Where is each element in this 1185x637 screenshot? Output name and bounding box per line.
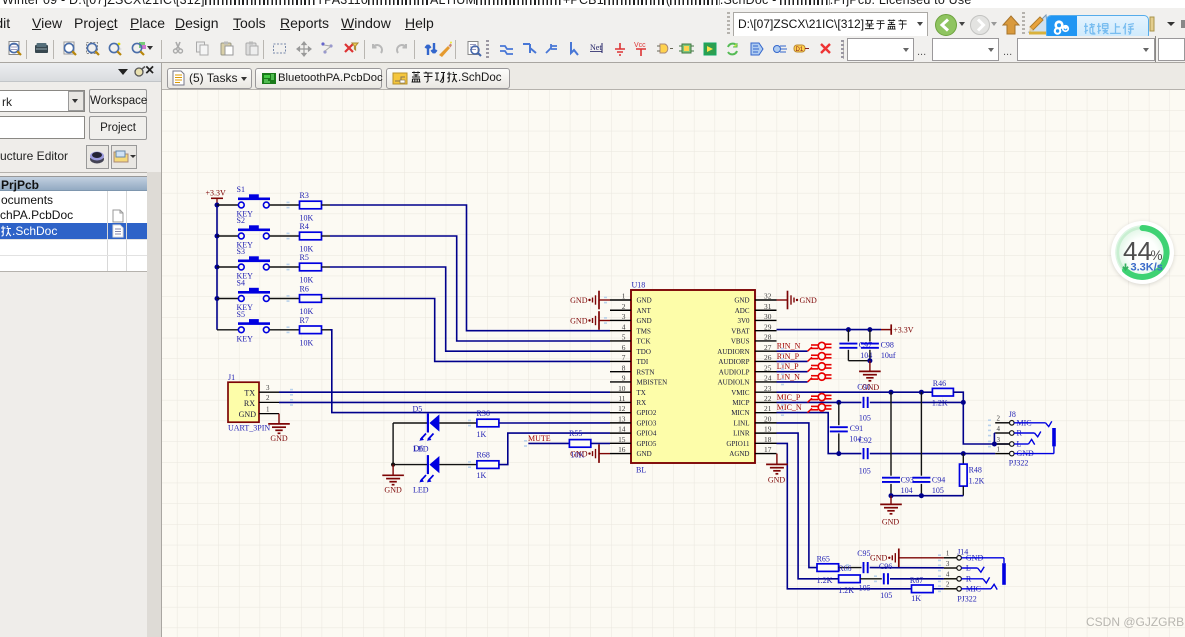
wire rail to switch S2 — [217, 235, 238, 237]
junction C94 top — [919, 390, 924, 395]
wire R7 to U18 GPIO2 — [330, 330, 610, 413]
junction C97 tap — [846, 327, 851, 332]
svg-text:R7: R7 — [300, 316, 309, 325]
svg-text:105: 105 — [880, 591, 892, 600]
junction C93 top — [889, 390, 894, 395]
svg-text:MICN: MICN — [731, 409, 749, 417]
svg-text:PJ322: PJ322 — [957, 595, 977, 604]
wire +3.3V vertical rail — [216, 205, 218, 330]
svg-text:GND: GND — [239, 410, 257, 419]
svg-text:R48: R48 — [969, 465, 982, 474]
ground C93 C94 R48 — [890, 496, 892, 504]
switch S1 KEY — [249, 194, 259, 197]
svg-text:AGND: AGND — [729, 450, 749, 458]
baidu upload widget — [1046, 15, 1149, 40]
wire J1 RX to U18 pin11 — [279, 401, 610, 403]
junction MICP-C91 — [836, 400, 841, 405]
junction C91 bottom — [836, 451, 841, 456]
svg-text:16: 16 — [618, 445, 626, 454]
toolbar — [0, 36, 1185, 63]
svg-text:LED: LED — [413, 486, 429, 495]
title bar (clipped) — [0, 0, 1185, 8]
U18 pin 28 MICN — [755, 340, 777, 342]
wire D6 to R68 — [439, 464, 477, 466]
junction node +3.3V row 3 — [215, 265, 220, 270]
wire switch to resistor R7 — [269, 329, 299, 331]
svg-text:LIN_N: LIN_N — [777, 372, 800, 381]
wire MUTE stub — [528, 442, 569, 444]
svg-text:TDO: TDO — [637, 348, 651, 356]
svg-text:KEY: KEY — [237, 334, 254, 343]
U18 pin 19 3V0 — [755, 432, 777, 434]
switch S5 KEY — [249, 319, 259, 322]
svg-text:15: 15 — [618, 435, 626, 444]
svg-text:7: 7 — [622, 353, 626, 362]
svg-text:10uf: 10uf — [881, 351, 896, 360]
project tree — [0, 176, 147, 271]
svg-text:AUDIOLP: AUDIOLP — [719, 368, 750, 376]
U18 pin 1 GND — [610, 299, 631, 301]
U18 pin 9 MBISTEN — [610, 381, 631, 383]
svg-text:R66: R66 — [838, 564, 851, 573]
svg-text:GND: GND — [637, 450, 652, 458]
svg-text:C96: C96 — [879, 562, 892, 571]
svg-text:GND: GND — [800, 296, 818, 305]
svg-text:19: 19 — [764, 425, 772, 434]
svg-text:GPIO11: GPIO11 — [726, 440, 750, 448]
capacitor C93 104 — [890, 392, 892, 476]
address combo — [727, 12, 730, 34]
J8 pin 3 L — [995, 443, 1009, 445]
wire J1 TX to U18 pin10 — [279, 391, 610, 393]
forward button (disabled) — [969, 14, 991, 36]
svg-text:9: 9 — [622, 374, 626, 383]
wire R46 to headphone feed — [953, 392, 1010, 444]
svg-text:C91: C91 — [850, 424, 863, 433]
U18 pin 30 LINR — [755, 319, 777, 321]
capacitor C96 105 (series) — [860, 578, 882, 580]
resistor R55 10K — [569, 440, 590, 448]
wire U18 GPIO11 to R67 — [777, 443, 912, 588]
J14 pin 2 MIC — [944, 588, 957, 590]
svg-text:S2: S2 — [237, 216, 245, 225]
svg-text:2: 2 — [622, 302, 626, 311]
svg-text:10K: 10K — [300, 338, 314, 347]
resistor R36 1K — [477, 419, 499, 427]
U18 pin 24 AUDIOLP — [755, 381, 777, 383]
resistor R5 10K — [300, 263, 322, 271]
svg-text:18: 18 — [764, 435, 772, 444]
svg-text:R68: R68 — [477, 451, 490, 460]
svg-text:PJ322: PJ322 — [1009, 458, 1029, 467]
svg-text:3V0: 3V0 — [737, 317, 750, 325]
svg-text:RX: RX — [244, 399, 255, 408]
U18 pin 12 GPIO2 — [610, 412, 631, 414]
wire C93 C94 R48 bottom rail — [891, 495, 963, 497]
J14 pin 4 R — [944, 578, 957, 580]
ground U18 AGND pin17 — [776, 454, 778, 464]
svg-text:MIC_N: MIC_N — [777, 403, 802, 412]
svg-text:23: 23 — [764, 384, 772, 393]
U18 pin 6 TDO — [610, 350, 631, 352]
J8 sleeve barrel — [1014, 453, 1054, 455]
svg-text:11: 11 — [618, 394, 625, 403]
svg-text:U18: U18 — [632, 280, 646, 289]
U18 pin 25 AUDIOLN — [755, 371, 777, 373]
svg-text:105: 105 — [859, 413, 871, 422]
ground C97 C98 — [869, 361, 871, 371]
capacitor C92 105 (series) — [863, 448, 865, 459]
toolbar combos — [847, 38, 914, 61]
U18 pin 15 GPIO5 — [610, 442, 631, 444]
connector J1 UART_3PIN — [228, 382, 259, 422]
switch S2 KEY — [249, 225, 259, 228]
wire switch to resistor R4 — [269, 235, 299, 237]
svg-text:GND: GND — [768, 475, 786, 484]
U18 pin 14 GPIO4 — [610, 432, 631, 434]
svg-text:ANT: ANT — [637, 307, 652, 315]
wire D5 to R36 — [439, 422, 477, 424]
resistor R6 10K — [300, 295, 322, 303]
svg-text:3: 3 — [997, 436, 1001, 444]
svg-text:20: 20 — [764, 414, 772, 423]
svg-text:32: 32 — [764, 292, 772, 301]
svg-text:14: 14 — [618, 425, 626, 434]
CSDN watermark — [1086, 615, 1184, 629]
wire U18 VBAT to +3.3V — [777, 329, 882, 331]
U18 pin 32 AGND — [755, 299, 777, 301]
U18 pin 31 GPIO11 — [755, 309, 777, 311]
svg-text:29: 29 — [764, 322, 772, 331]
svg-text:GND: GND — [270, 434, 288, 443]
svg-text:TX: TX — [244, 389, 255, 398]
svg-text:MIC_P: MIC_P — [777, 393, 801, 402]
svg-text:C95: C95 — [857, 549, 870, 558]
tab bar — [162, 63, 1185, 90]
junction bottom rail C94 — [919, 493, 924, 498]
junction node +3.3V row 4 — [215, 296, 220, 301]
svg-text:+3.3V: +3.3V — [206, 189, 227, 198]
svg-text:12: 12 — [618, 404, 626, 413]
capacitor C90 105 (series on MICP) — [863, 397, 865, 408]
svg-text:S4: S4 — [237, 279, 245, 288]
up arrow — [1000, 13, 1022, 36]
wire C92 to jack J8 ground row — [870, 453, 995, 455]
svg-text:1: 1 — [997, 445, 1001, 453]
svg-text:1: 1 — [266, 405, 270, 413]
svg-text:MUTE: MUTE — [528, 434, 551, 443]
workspace row — [0, 90, 85, 112]
wire rail to switch S3 — [217, 266, 238, 268]
svg-text:R67: R67 — [910, 576, 923, 585]
capacitor C94 105 — [920, 392, 922, 476]
svg-text:3: 3 — [946, 560, 950, 568]
svg-text:22: 22 — [764, 394, 772, 403]
svg-text:TCK: TCK — [637, 338, 651, 346]
menu bar — [0, 8, 1185, 36]
svg-text:R36: R36 — [477, 409, 490, 418]
svg-text:21: 21 — [764, 404, 772, 413]
junction LED ground node — [391, 463, 395, 467]
svg-text:GND: GND — [570, 296, 588, 305]
J8 pin 4 R — [995, 432, 1009, 434]
wire switch to resistor R6 — [269, 298, 299, 300]
svg-text:D1: D1 — [796, 47, 804, 53]
J14 pin 3 L — [944, 567, 957, 569]
capacitor C95 105 (series) — [839, 567, 862, 569]
svg-text:VBAT: VBAT — [731, 327, 750, 335]
svg-text:C93: C93 — [901, 475, 914, 484]
U18 pin 13 GPIO3 — [610, 422, 631, 424]
junction node +3.3V row 2 — [215, 234, 220, 239]
svg-text:GPIO4: GPIO4 — [637, 430, 657, 438]
U18 pin 16 GND — [610, 453, 631, 455]
power port +3.3V (VBAT) — [881, 329, 891, 331]
switch S4 KEY — [249, 288, 259, 291]
power ground at U18 pin32 — [777, 299, 788, 301]
svg-text:MBISTEN: MBISTEN — [637, 379, 668, 387]
svg-text:GND: GND — [570, 317, 588, 326]
junction bottom rail C93 — [889, 493, 894, 498]
svg-text:S1: S1 — [237, 185, 245, 194]
resistor R65 1.2K — [817, 564, 839, 572]
J1 pin 2 — [259, 401, 279, 403]
svg-text:GND: GND — [637, 297, 652, 305]
svg-text:104: 104 — [901, 486, 913, 495]
svg-text:27: 27 — [764, 343, 772, 352]
svg-text:R55: R55 — [569, 429, 582, 438]
svg-text:+3.3V: +3.3V — [893, 325, 914, 334]
U18 pin 5 TCK — [610, 340, 631, 342]
J1 pin 1 — [259, 413, 279, 415]
svg-text:1.2K: 1.2K — [969, 476, 985, 485]
J8 pin 1 GND — [995, 453, 1009, 455]
svg-text:1K: 1K — [477, 430, 487, 439]
wire C96 to J14 R — [890, 578, 944, 580]
wire U18 LINL to R65 — [777, 423, 818, 568]
svg-text:4: 4 — [946, 571, 950, 579]
svg-text:5: 5 — [622, 333, 626, 342]
svg-text:6: 6 — [622, 343, 626, 352]
J14 jack contacts — [961, 557, 1004, 559]
svg-text:3.3K/s: 3.3K/s — [1131, 262, 1163, 274]
diode D6 LED — [427, 455, 429, 474]
U18 pin 23 AUDIORP — [755, 391, 777, 393]
resistor R48 1.2K vertical — [962, 454, 964, 465]
U18 pin 17 GND — [755, 453, 777, 455]
wire R67 to J14 MIC — [933, 588, 944, 590]
download progress widget — [1111, 221, 1174, 284]
svg-text:GND: GND — [882, 517, 900, 526]
U18 pin 29 LINL — [755, 330, 777, 332]
svg-text:GND: GND — [734, 297, 749, 305]
left panel — [0, 63, 162, 637]
svg-text:24: 24 — [764, 374, 772, 383]
wire LED cathodes to ground — [393, 422, 428, 424]
U18 pin 4 TMS — [610, 330, 631, 332]
svg-text:26: 26 — [764, 353, 772, 362]
svg-text:TDI: TDI — [637, 358, 649, 366]
panel header icons — [118, 69, 128, 75]
svg-text:LINL: LINL — [734, 419, 750, 427]
J14 sleeve barrel — [1002, 563, 1006, 585]
wire endpoint markers — [287, 202, 290, 204]
ruler+pencil icon — [1027, 13, 1049, 35]
diode D5 LED — [427, 414, 429, 433]
U18 pin 7 TDI — [610, 360, 631, 362]
svg-text:10K: 10K — [300, 276, 314, 285]
wire U18 MICN to lower rail — [777, 413, 862, 454]
svg-text:2: 2 — [997, 415, 1001, 423]
U18 pin 26 VMIC — [755, 360, 777, 362]
capacitor C97 104 — [847, 330, 849, 342]
svg-text:4: 4 — [622, 322, 626, 331]
svg-text:AUDIOLN: AUDIOLN — [718, 379, 750, 387]
wire rail to switch S5 — [217, 329, 238, 331]
svg-text:1: 1 — [622, 292, 626, 301]
switch S3 KEY — [249, 256, 259, 259]
back button — [934, 13, 958, 37]
svg-text:RIN_P: RIN_P — [777, 352, 800, 361]
svg-text:R46: R46 — [933, 379, 946, 388]
wire switch to resistor R5 — [269, 266, 299, 268]
U18 pin 27 MICP — [755, 350, 777, 352]
svg-text:2: 2 — [266, 394, 270, 402]
svg-text:2: 2 — [946, 581, 950, 589]
svg-text:VMIC: VMIC — [731, 389, 750, 397]
wire rail to switch S1 — [217, 204, 238, 206]
junction J8 L node — [992, 442, 997, 447]
wire R4 to U18 — [330, 236, 610, 341]
svg-text:GPIO5: GPIO5 — [637, 440, 657, 448]
U18 pin 20 VBAT — [755, 422, 777, 424]
svg-text:RSTN: RSTN — [637, 368, 655, 376]
svg-text:VBUS: VBUS — [731, 338, 750, 346]
svg-text:S3: S3 — [237, 247, 245, 256]
svg-text:LIN_P: LIN_P — [777, 362, 799, 371]
svg-text:R5: R5 — [300, 253, 309, 262]
J14 pin 1 GND — [944, 557, 957, 559]
wire C90 to R46 node — [870, 401, 964, 403]
svg-text:D5: D5 — [413, 404, 423, 413]
svg-text:AUDIORN: AUDIORN — [717, 348, 749, 356]
resistor R7 10K — [300, 326, 322, 334]
svg-text:28: 28 — [764, 333, 772, 342]
capacitor C91 104 — [838, 402, 840, 425]
junction C97/C98 ground node — [867, 358, 872, 363]
svg-text:3: 3 — [622, 312, 626, 321]
svg-text:ADC: ADC — [735, 307, 750, 315]
svg-text:C92: C92 — [859, 436, 872, 445]
svg-text:13: 13 — [618, 414, 626, 423]
U18 pin 2 ANT — [610, 309, 631, 311]
wire U18 VMIC rail — [777, 391, 933, 393]
svg-text:GND: GND — [870, 554, 888, 563]
svg-text:AUDIORP: AUDIORP — [718, 358, 749, 366]
svg-text:LINR: LINR — [733, 430, 750, 438]
svg-text:8: 8 — [622, 363, 626, 372]
svg-text:10K: 10K — [300, 307, 314, 316]
ground J1 — [278, 414, 280, 424]
svg-text:R6: R6 — [300, 285, 309, 294]
svg-text:RX: RX — [637, 399, 647, 407]
svg-text:GND: GND — [637, 317, 652, 325]
U18 pin 22 AUDIORN — [755, 401, 777, 403]
junction C98 tap — [867, 327, 872, 332]
wire R55 to U18 GPIO5 pin15 — [591, 442, 610, 444]
svg-text:1: 1 — [946, 550, 950, 558]
wire C95 to J14 L — [870, 567, 944, 569]
J1 pin 3 — [259, 391, 279, 393]
U18 pin 18 ADC — [755, 442, 777, 444]
svg-text:TMS: TMS — [637, 327, 652, 335]
wire R68 to U18 GPIO4 pin14 — [499, 433, 610, 465]
resistor R66 1.2K — [839, 575, 861, 583]
wire R36 to U18 GPIO3 pin13 — [499, 422, 610, 424]
svg-text:17: 17 — [764, 445, 772, 454]
svg-text:RIN_N: RIN_N — [777, 342, 801, 351]
U18 pin 21 VBUS — [755, 412, 777, 414]
svg-text:R4: R4 — [300, 222, 309, 231]
wire R6 to U18 — [330, 299, 610, 362]
wire R3 to U18 — [330, 205, 610, 331]
svg-text:10: 10 — [618, 384, 626, 393]
svg-text:GPIO2: GPIO2 — [637, 409, 657, 417]
resistor R46 1.2K — [932, 388, 953, 396]
svg-text:J8: J8 — [1009, 410, 1016, 419]
resistor R3 10K — [300, 201, 322, 209]
svg-text:30: 30 — [764, 312, 772, 321]
svg-text:GND: GND — [384, 486, 402, 495]
U18 pin 8 RSTN — [610, 371, 631, 373]
svg-text:1K: 1K — [911, 594, 921, 603]
svg-text:C94: C94 — [932, 475, 945, 484]
wire switch to resistor R3 — [269, 204, 299, 206]
svg-text:TX: TX — [637, 389, 646, 397]
U18 pin 10 TX — [610, 391, 631, 393]
svg-text:R65: R65 — [817, 554, 830, 563]
U18 pin 11 RX — [610, 401, 631, 403]
capacitor C98 10uf — [869, 330, 871, 342]
op-amp/IC U18 BL bluetooth module — [631, 290, 755, 463]
svg-text:GND: GND — [570, 450, 588, 459]
svg-text:UART_3PIN: UART_3PIN — [228, 424, 270, 433]
wire R5 to U18 — [330, 267, 610, 351]
svg-text:31: 31 — [764, 302, 772, 311]
svg-text:Vcc: Vcc — [634, 42, 646, 49]
junction MICP-R46 — [961, 400, 966, 405]
U18 pin 3 GND — [610, 319, 631, 321]
svg-text:S5: S5 — [237, 310, 245, 319]
J8 pin 2 MIC — [995, 422, 1009, 424]
svg-text:1.2K: 1.2K — [838, 586, 854, 595]
svg-text:C98: C98 — [881, 341, 894, 350]
svg-text:105: 105 — [859, 584, 871, 593]
svg-text:R3: R3 — [300, 191, 309, 200]
svg-text:LED: LED — [413, 445, 429, 454]
svg-text:GPIO3: GPIO3 — [637, 419, 657, 427]
svg-text:MICP: MICP — [732, 399, 749, 407]
resistor R67 1K — [912, 585, 934, 593]
svg-text:Net: Net — [590, 43, 602, 52]
wire rail to switch S4 — [217, 298, 238, 300]
svg-text:105: 105 — [859, 466, 871, 475]
svg-text:BL: BL — [636, 466, 646, 475]
J8 R/L tie wire — [993, 433, 995, 444]
junction R48 top — [961, 451, 966, 456]
J8 jack contacts — [1014, 422, 1045, 424]
resistor R4 10K — [300, 232, 322, 240]
